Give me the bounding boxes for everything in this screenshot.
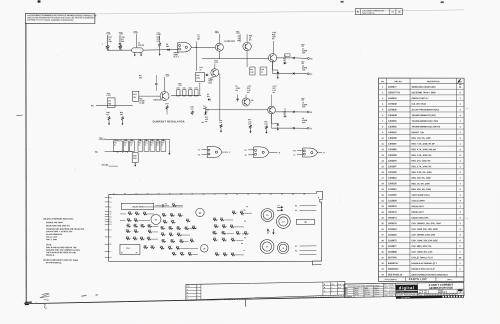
svg-text:R35: R35 [232, 211, 235, 213]
svg-text:R61: R61 [160, 246, 163, 248]
svg-text:10%: 10% [302, 122, 306, 124]
svg-text:C2: C2 [246, 206, 248, 208]
svg-text:DEC3009B TRAN + 3009: DEC3009B TRAN + 3009 [412, 91, 437, 94]
svg-text:R67: R67 [231, 238, 234, 240]
svg-text:L3: L3 [278, 205, 280, 207]
svg-text:R69: R69 [151, 245, 154, 247]
svg-text:G620 CONNECTOR NOTE (MODULE): G620 CONNECTOR NOTE (MODULE) [411, 274, 448, 276]
module pin P1 stub [105, 229, 109, 231]
svg-text:R52: R52 [130, 142, 133, 144]
svg-text:D670: D670 [345, 292, 348, 294]
svg-text:1105577: 1105577 [388, 87, 397, 89]
svg-text:L2: L2 [243, 250, 245, 252]
svg-text:R58: R58 [169, 226, 172, 228]
svg-text:RES. 10K, 5%, 1/4W: RES. 10K, 5%, 1/4W [411, 188, 430, 191]
svg-text:R11: R11 [220, 218, 223, 220]
regulator IC box [133, 91, 139, 101]
module resistor r14 [133, 238, 138, 240]
svg-text:1510012: 1510012 [388, 98, 397, 100]
delay stage box 1 [113, 141, 122, 152]
svg-text:IN THIS MODULE.: IN THIS MODULE. [46, 262, 62, 264]
svg-text:P1: P1 [110, 230, 112, 232]
transistor Q1 in module [151, 214, 161, 224]
module resistor r35 [168, 247, 173, 249]
revision strip left header [195, 284, 197, 300]
wire [193, 253, 198, 255]
svg-text:E2: E2 [241, 214, 243, 216]
svg-text:K2: K2 [241, 243, 243, 245]
diode below Q9 with ground [271, 114, 273, 124]
module resistor r52 [231, 239, 236, 241]
svg-text:SHT 1: SHT 1 [448, 279, 453, 281]
emitter bus wire [202, 58, 269, 60]
top-right registration mark [441, 1, 444, 3]
svg-text:E1: E1 [110, 202, 112, 204]
NOR gate E1 [178, 43, 192, 53]
module outline box [109, 191, 323, 265]
svg-text:DELAY 2001: DELAY 2001 [132, 205, 142, 208]
svg-text:VERT RAMP 100-A: VERT RAMP 100-A [411, 194, 430, 197]
svg-text:COILS 2.5MH: COILS 2.5MH [411, 200, 425, 202]
vertical wire from Q10 down [219, 73, 221, 120]
svg-text:301: 301 [133, 97, 136, 99]
module resistor r3 [143, 213, 148, 215]
top-left registration mark [38, 0, 41, 2]
svg-text:RES. 1K, 5%, 1/4W: RES. 1K, 5%, 1/4W [411, 182, 429, 185]
svg-text:R50: R50 [114, 142, 117, 144]
toroid core L6 [276, 215, 290, 229]
svg-text:7: 7 [382, 121, 383, 123]
svg-text:7: 7 [460, 183, 461, 185]
svg-text:MODULE.: MODULE. [46, 255, 55, 257]
svg-text:CHG TO REV A: CHG TO REV A [362, 12, 375, 15]
svg-text:303: 303 [139, 77, 142, 79]
ground below T1 right [140, 52, 142, 54]
module resistor r12 [148, 231, 153, 233]
copyright notice box [25, 13, 95, 23]
svg-text:R21: R21 [223, 252, 226, 254]
svg-text:S1: S1 [270, 194, 272, 196]
svg-text:B1: B1 [124, 194, 126, 196]
svg-text:C16: C16 [150, 139, 153, 141]
wire [141, 206, 182, 208]
svg-text:CAP. .0068, 35V, 10%, DISC: CAP. .0068, 35V, 10%, DISC [411, 228, 438, 231]
svg-text:RES. 2.7K, 1/4W, 5%: RES. 2.7K, 1/4W, 5% [411, 165, 431, 168]
svg-text:2: 2 [460, 246, 461, 248]
svg-text:R10: R10 [128, 212, 131, 214]
svg-text:R33: R33 [165, 103, 168, 105]
svg-text:NOTE:: NOTE: [46, 244, 52, 246]
svg-text:R3: R3 [172, 203, 174, 205]
svg-text:R13: R13 [126, 229, 129, 231]
module resistor r11 [134, 231, 139, 233]
svg-text:30: 30 [381, 252, 383, 254]
module resistor r28 [161, 234, 166, 236]
svg-text:MCL: MCL [133, 94, 137, 96]
svg-text:L5: L5 [266, 215, 268, 217]
svg-text:1910677: 1910677 [388, 246, 397, 248]
svg-text:R56: R56 [244, 231, 247, 233]
output D diode and terminal J1 [271, 114, 273, 128]
svg-text:REV: REV [187, 286, 190, 288]
svg-text:PARTS LIST: PARTS LIST [409, 277, 427, 281]
module resistor r42 [190, 240, 195, 242]
delay stage box 7 [156, 141, 160, 152]
svg-text:1509378: 1509378 [388, 223, 397, 225]
module resistor r53 [215, 254, 220, 256]
svg-text:R57: R57 [190, 239, 193, 241]
svg-text:H1: H1 [180, 194, 182, 196]
svg-text:10: 10 [382, 138, 384, 140]
module resistor r19 [162, 214, 167, 216]
svg-text:F2: F2 [244, 221, 246, 223]
svg-text:238: 238 [108, 41, 111, 43]
module pin K1 stub [105, 216, 109, 218]
svg-text:PL 1: PL 1 [127, 248, 131, 250]
svg-text:L1: L1 [110, 219, 112, 221]
svg-text:HANDLE EXTENDED QTY: HANDLE EXTENDED QTY [411, 262, 437, 265]
svg-text:1300397: 1300397 [388, 143, 397, 145]
toroid core L5 [261, 209, 274, 222]
wire ladder to top box [199, 82, 201, 95]
svg-text:C2: C2 [165, 203, 167, 205]
module pin U1 stub [105, 256, 109, 258]
svg-text:F1: F1 [169, 194, 171, 196]
svg-text:29: 29 [381, 246, 383, 248]
svg-text:Q3: Q3 [203, 248, 205, 250]
svg-text:R15: R15 [176, 246, 179, 248]
diode D6 on output C wire [275, 111, 292, 113]
svg-text:R56: R56 [157, 142, 160, 144]
svg-text:R65: R65 [177, 226, 180, 228]
svg-text:33: 33 [381, 269, 383, 271]
svg-text:U1: U1 [292, 194, 294, 196]
svg-text:1310393: 1310393 [388, 195, 397, 197]
module resistor r2 [135, 213, 140, 215]
svg-text:2: 2 [460, 223, 461, 225]
delay line lower wire [105, 151, 133, 153]
bottom scribble near left border [40, 294, 50, 301]
svg-text:Q2: Q2 [199, 212, 201, 214]
terminal strip box right of toroids [296, 219, 314, 224]
svg-text:R27: R27 [250, 69, 253, 71]
svg-text:10%: 10% [302, 52, 306, 54]
svg-text:E2: E2 [198, 154, 200, 156]
svg-text:R30: R30 [178, 213, 181, 215]
svg-text:H.LONG: H.LONG [389, 295, 393, 297]
svg-text:PL 6,7: PL 6,7 [174, 56, 179, 58]
svg-text:C15: C15 [144, 139, 147, 141]
svg-text:HANDLE W/O CLK FLIP: HANDLE W/O CLK FLIP [411, 268, 435, 271]
toroid core L8 [277, 242, 288, 253]
svg-text:1300297: 1300297 [388, 132, 397, 134]
module resistor r47 [230, 226, 235, 228]
svg-text:12: 12 [382, 149, 384, 151]
svg-text:DESCRIPTION: DESCRIPTION [427, 81, 440, 83]
svg-text:26: 26 [381, 229, 383, 231]
module resistor r26 [176, 228, 181, 230]
svg-text:5%: 5% [272, 38, 275, 40]
bottom small dash marks [81, 295, 97, 296]
svg-text:R19: R19 [161, 233, 164, 235]
module resistor r39 [188, 253, 193, 255]
module pin L1 stub [105, 218, 109, 220]
svg-text:TRANSFORMER DEC 7520: TRANSFORMER DEC 7520 [412, 120, 439, 123]
component box right of ladder [196, 72, 205, 81]
svg-text:SEMICOND DIODE D664: SEMICOND DIODE D664 [412, 86, 437, 89]
svg-text:1910675: 1910675 [388, 240, 397, 242]
sheet top edge (faint scan line) [30, 10, 464, 15]
module resistor r1 [128, 213, 133, 215]
module resistor r51 [222, 239, 227, 241]
svg-text:E1: E1 [158, 194, 160, 196]
wire [235, 226, 244, 228]
svg-text:Q4 DEC3009: Q4 DEC3009 [224, 40, 235, 43]
gate E1 output wire [191, 46, 202, 48]
module resistor r20 [170, 214, 175, 216]
svg-text:RES. 1.5K, 1/4W, 5%: RES. 1.5K, 1/4W, 5% [412, 154, 432, 157]
svg-text:R1: R1 [110, 237, 112, 239]
svg-text:L8: L8 [282, 248, 284, 250]
svg-text:2N2907: 2N2907 [374, 289, 379, 291]
svg-text:R33: R33 [177, 233, 180, 235]
svg-text:1500379: 1500379 [388, 212, 397, 214]
svg-text:EYELET SMALL FLAT: EYELET SMALL FLAT [411, 256, 433, 259]
svg-text:230: 230 [121, 41, 124, 43]
svg-text:R53: R53 [213, 238, 216, 240]
svg-text:R38: R38 [191, 106, 194, 108]
svg-text:R31: R31 [127, 218, 130, 220]
winding arrows near L5 [277, 206, 283, 208]
svg-text:6: 6 [460, 217, 461, 219]
module resistor r15 [140, 238, 145, 240]
revision box at top [355, 9, 402, 15]
svg-text:C: C [187, 295, 188, 297]
ground drop from R20 node [159, 50, 161, 52]
wire T1 to gate [143, 49, 178, 52]
svg-text:S1: S1 [110, 244, 112, 246]
module resistor r38 [180, 253, 185, 255]
svg-text:T1: T1 [110, 251, 112, 253]
svg-text:R55: R55 [151, 142, 154, 144]
wire [153, 231, 158, 233]
svg-text:CAP. .02MF, 35V, 10%: CAP. .02MF, 35V, 10% [411, 251, 432, 254]
svg-text:DEC FORM NO: DEC FORM NO [401, 297, 410, 299]
svg-text:K1: K1 [310, 74, 312, 76]
boxed labels below Q5 emitter [246, 59, 248, 67]
wire [245, 212, 252, 214]
bottom-left squiggle mark [44, 305, 47, 309]
svg-text:RESIST 7.5K: RESIST 7.5K [412, 132, 425, 134]
delay line tap at x=127.4 [126, 151, 128, 153]
svg-text:9: 9 [460, 92, 461, 94]
svg-text:TRANSFORMER DEC 2007-B: TRANSFORMER DEC 2007-B [412, 125, 441, 128]
svg-text:R57: R57 [161, 142, 164, 144]
wire [120, 213, 126, 215]
+10V overline bars [107, 32, 110, 34]
size code number row [418, 288, 464, 291]
conversion chart rows [344, 288, 383, 291]
module resistor r55 [231, 254, 236, 256]
wire [236, 239, 243, 241]
svg-text:1304549: 1304549 [388, 114, 397, 117]
module resistor r4 [127, 219, 132, 221]
module resistor r59 [244, 233, 249, 235]
svg-text:B: B [187, 292, 188, 294]
svg-text:R26: R26 [169, 233, 172, 235]
module resistor r21 [178, 215, 183, 217]
revision strip [186, 282, 345, 301]
diode below Q6 output junction [283, 63, 285, 65]
svg-text:-15V (B): -15V (B) [101, 165, 108, 167]
svg-text:19: 19 [382, 189, 384, 191]
svg-text:470: 470 [219, 121, 222, 124]
svg-text:2: 2 [460, 149, 461, 151]
output B diode and terminal K1 [272, 61, 274, 73]
svg-text:N1: N1 [110, 224, 112, 226]
bottom tick below border at center [245, 300, 247, 307]
conversion chart columns [353, 287, 355, 297]
module resistor r8 [140, 225, 145, 227]
delay stage box 6 [150, 141, 155, 152]
svg-text:C.B. 250 TRAN: C.B. 250 TRAN [412, 103, 427, 106]
delay stage box 8 [161, 141, 166, 152]
wire [181, 247, 198, 249]
svg-text:CAP. 100MFD, 10V, 20%, TANT: CAP. 100MFD, 10V, 20%, TANT [411, 222, 441, 225]
wire [227, 232, 234, 234]
svg-text:2: 2 [460, 172, 461, 174]
svg-text:CIRCUIT DEC 6-7: CIRCUIT DEC 6-7 [412, 98, 430, 100]
svg-text:DEC653: DEC653 [365, 290, 370, 292]
svg-text:R51: R51 [161, 226, 164, 228]
svg-text:1502074: 1502074 [388, 216, 397, 219]
top-center registration mark [341, 1, 344, 3]
svg-text:H1: H1 [110, 211, 112, 213]
module resistor r34 [160, 247, 165, 249]
svg-text:+10V: +10V [156, 34, 161, 36]
svg-text:U1: U1 [110, 257, 112, 259]
svg-text:32: 32 [381, 263, 383, 265]
module pin R1 stub [105, 236, 109, 238]
svg-text:A: A [357, 10, 359, 14]
svg-text:A-PL-G620-0-1: A-PL-G620-0-1 [385, 278, 398, 281]
svg-text:5%: 5% [249, 39, 252, 41]
wire [152, 225, 158, 227]
svg-text:R20: R20 [134, 229, 137, 231]
title text [417, 283, 419, 296]
delay stage box 2 [124, 141, 129, 152]
svg-text:DIODE D664 10%: DIODE D664 10% [411, 216, 428, 219]
module resistor r48 [212, 232, 217, 234]
wire regulator input [96, 104, 133, 106]
svg-text:1910424: 1910424 [388, 228, 397, 231]
svg-text:M1: M1 [110, 221, 112, 223]
svg-text:1302389: 1302389 [388, 155, 397, 157]
svg-text:K2: K2 [245, 150, 247, 152]
svg-text:R68: R68 [168, 246, 171, 248]
svg-text:K2: K2 [310, 58, 312, 60]
module resistor r29 [169, 234, 174, 236]
svg-text:MF: MF [205, 111, 207, 113]
delay line tap at x=122.6 [122, 151, 124, 153]
svg-text:C1 MF: C1 MF [139, 103, 145, 105]
svg-text:R23: R23 [170, 213, 173, 215]
ground below T1 left [134, 52, 136, 54]
svg-text:1309105: 1309105 [388, 183, 397, 185]
module resistor r6 [126, 225, 131, 227]
module resistor r57 [240, 212, 245, 214]
svg-text:T1: T1 [281, 194, 283, 196]
svg-text:TRANSISTORS (DEC3009) ARE SELE: TRANSISTORS (DEC3009) ARE SELECTED [46, 228, 85, 231]
svg-text:R32: R32 [230, 225, 233, 227]
module resistor r33 [179, 241, 184, 243]
module resistor r10 [126, 231, 131, 233]
vertical wire from gate output node [195, 41, 197, 47]
module pin M1 stub [105, 221, 109, 223]
svg-text:K1: K1 [203, 194, 205, 196]
svg-text:R59: R59 [141, 224, 144, 226]
svg-text:F2: F2 [198, 149, 200, 151]
svg-text:SEE PAGE 10: SEE PAGE 10 [388, 273, 403, 276]
svg-text:CAP. 1000MF, 100V, 20%: CAP. 1000MF, 100V, 20% [411, 234, 435, 237]
module resistor r27 [184, 228, 189, 230]
svg-text:F1: F1 [110, 207, 112, 209]
svg-text:664: 664 [108, 102, 111, 105]
svg-text:1500378: 1500378 [388, 206, 397, 208]
svg-text:R1: R1 [259, 194, 261, 196]
module resistor r17 [143, 247, 148, 249]
svg-text:1302470: 1302470 [388, 160, 397, 163]
svg-text:CURRENT REGULATOR: CURRENT REGULATOR [153, 120, 185, 123]
svg-text:R39: R39 [213, 231, 216, 233]
module resistor r45 [214, 226, 219, 228]
svg-text:J1: J1 [110, 214, 112, 216]
module pin N1 stub [105, 223, 109, 225]
handwritten check mark on first row [458, 79, 462, 85]
svg-text:1910698: 1910698 [388, 252, 397, 254]
svg-text:1303380: 1303380 [388, 172, 397, 174]
wire [225, 219, 233, 221]
svg-text:20: 20 [382, 195, 384, 197]
module resistor r44 [220, 219, 225, 221]
wire [189, 228, 196, 230]
svg-text:R37: R37 [163, 220, 166, 222]
module resistor r16 [147, 238, 152, 240]
svg-text:PULSE: PULSE [138, 45, 145, 47]
svg-text:RES. 750, 5%, 1/4W: RES. 750, 5%, 1/4W [412, 137, 431, 140]
svg-text:RES. 7.5K, 1/4W, 5% MF: RES. 7.5K, 1/4W, 5% MF [412, 142, 436, 145]
input terminal node [101, 42, 104, 45]
svg-text:1N3606: 1N3606 [354, 288, 359, 290]
svg-text:9-1: 9-1 [338, 287, 340, 289]
svg-text:23: 23 [381, 212, 383, 214]
wire [181, 234, 190, 236]
module resistor r54 [223, 254, 228, 256]
svg-text:PINS D AND H2 ARE USED IN THE: PINS D AND H2 ARE USED IN THE [46, 246, 77, 249]
svg-text:10 CAP PROCESSOR HOLD: 10 CAP PROCESSOR HOLD [412, 108, 440, 111]
svg-text:1304551: 1304551 [388, 120, 397, 123]
svg-text:RESISTORS ARE 1/4W; 5%: RESISTORS ARE 1/4W; 5% [46, 224, 70, 227]
module pin T1 stub [105, 250, 109, 252]
parts list table frame [379, 78, 465, 281]
svg-text:RES. 4.7K, 1/4W, 10% MF: RES. 4.7K, 1/4W, 10% MF [412, 148, 437, 151]
module resistor r37 [172, 253, 177, 255]
svg-text:J1: J1 [191, 194, 193, 196]
svg-text:R50: R50 [192, 226, 195, 228]
svg-text:2: 2 [331, 290, 332, 292]
svg-text:+10V (A): +10V (A) [99, 138, 107, 141]
svg-text:R29: R29 [180, 252, 183, 254]
